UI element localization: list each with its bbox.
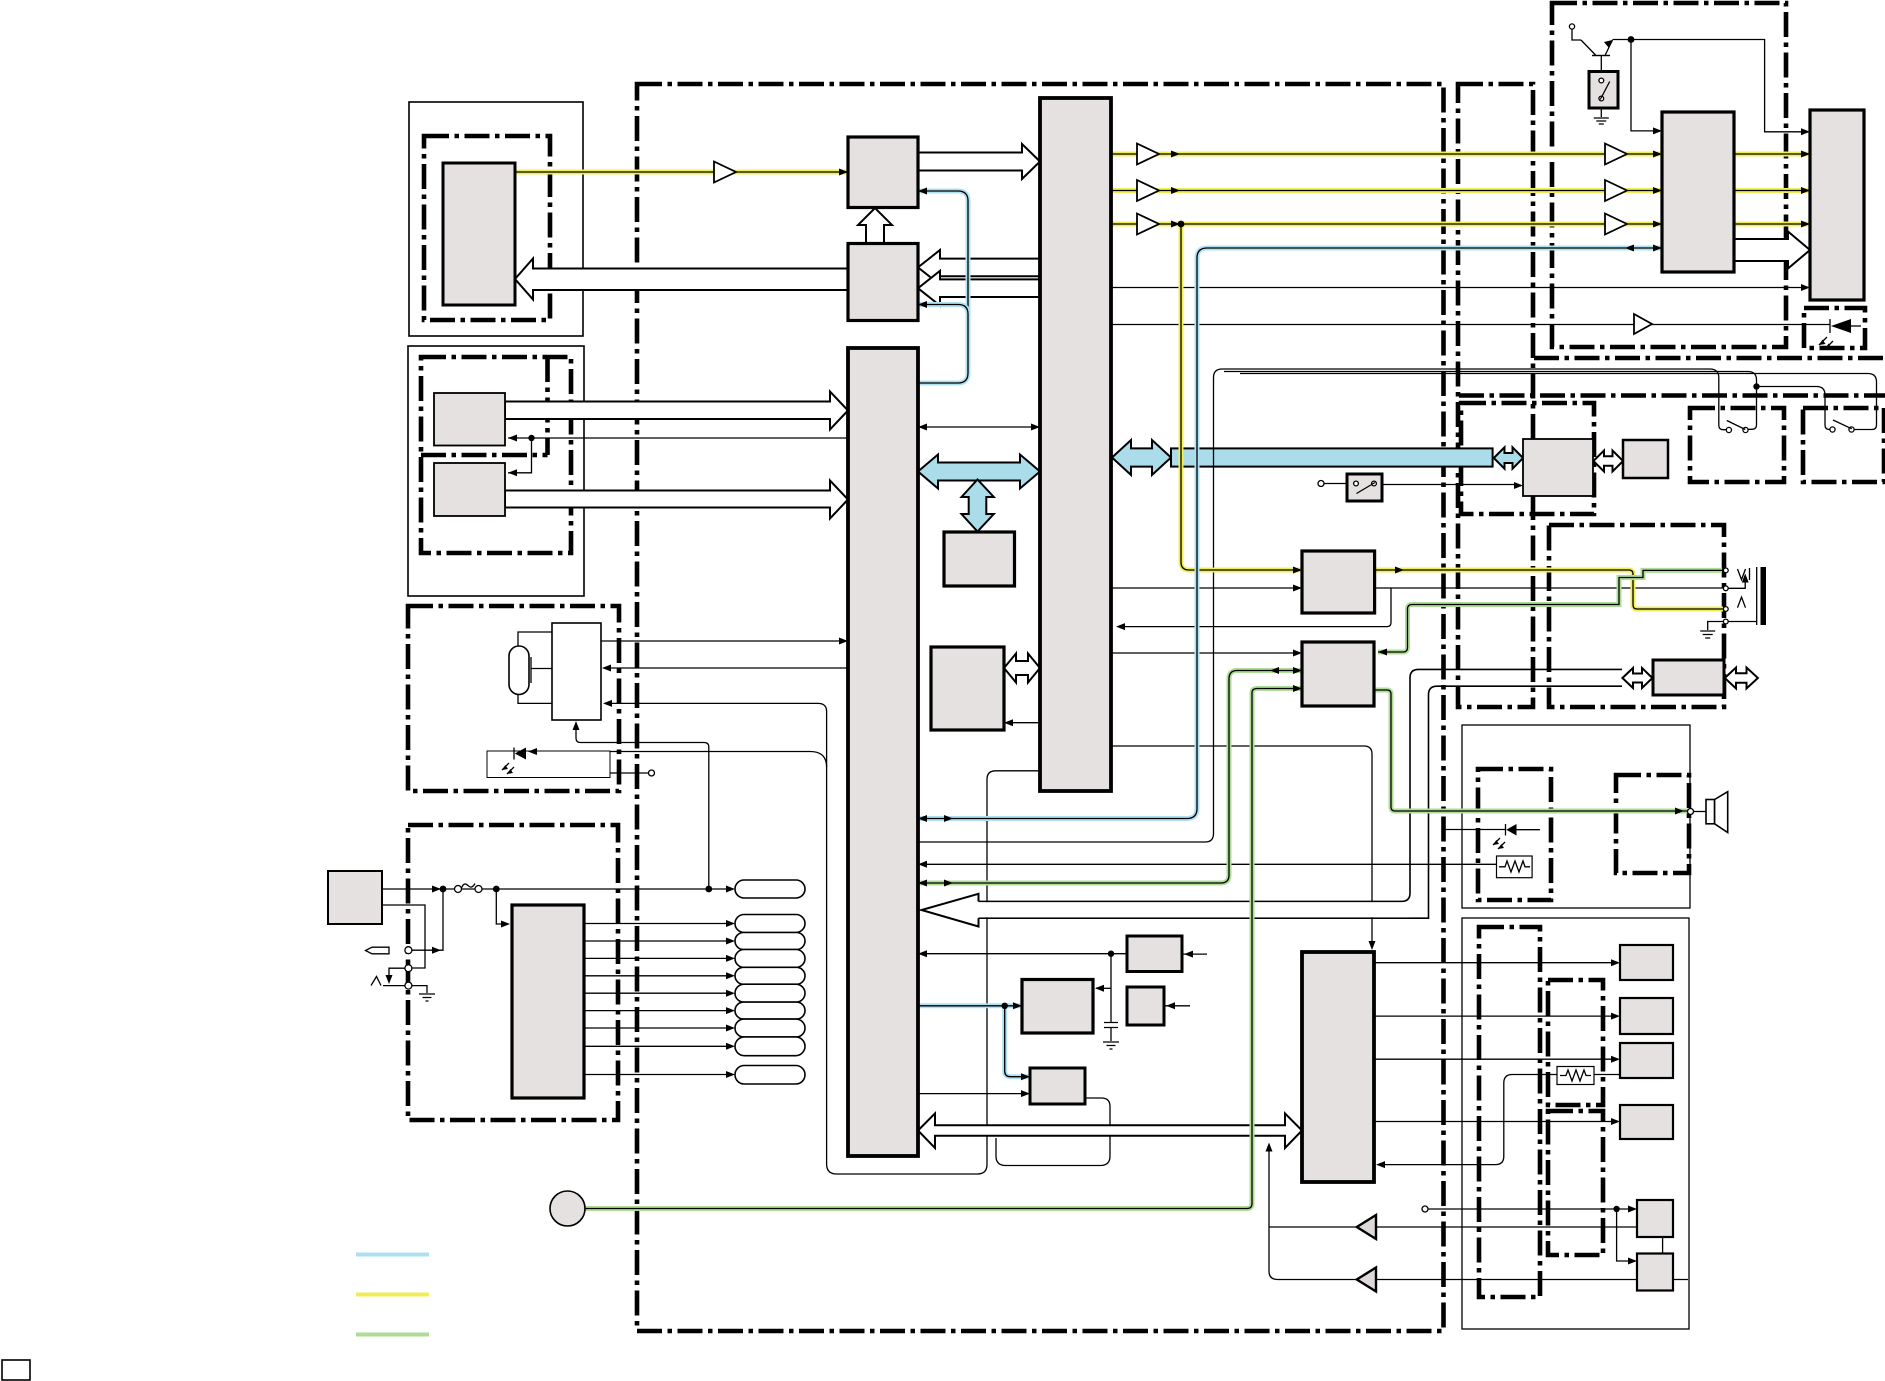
LED holder box mic <box>487 751 610 778</box>
narrow column dash-dot box <box>1458 84 1533 707</box>
arrowhead into SY top <box>1369 941 1376 950</box>
open arrow T1 to B2 upper <box>918 250 1040 285</box>
open arrow B2 up to B1 <box>858 208 892 243</box>
pill button 6 <box>735 984 805 1002</box>
arrowhead into C2 <box>1004 719 1013 726</box>
block LCD panel <box>1810 110 1864 300</box>
arrowhead cyan tleft right <box>944 815 953 822</box>
pill button 8 <box>735 1019 805 1037</box>
amp triangle RGB3 a <box>1137 214 1159 235</box>
wire green microphone circle to D2 <box>585 689 1302 1209</box>
wire yellow RGB line 2 driver to panel <box>1734 188 1810 193</box>
bottom-right tall dash-dot box <box>1479 927 1540 1297</box>
open arrow T1 to B2 lower <box>918 271 1040 306</box>
open arrow B1 to T1 <box>918 144 1040 179</box>
open arrow B2 to CCD A3 <box>515 259 848 300</box>
arrowhead T1 panel line <box>1801 284 1810 291</box>
block CCD imager A3 <box>443 163 515 305</box>
open arrow double C2 T1 <box>1004 654 1040 683</box>
node amp power junction <box>705 886 712 893</box>
node switch harness junction <box>1753 383 1759 389</box>
arrowhead pill 9 <box>726 1043 735 1050</box>
block EVF interface 1 <box>1523 439 1593 496</box>
wire R5 to R6 link <box>1662 1237 1664 1254</box>
switch symbol mode SW <box>1354 481 1377 493</box>
wire SY out 1 <box>1374 962 1616 964</box>
wire rail branch to LCD driver <box>1631 40 1658 131</box>
arrowhead green D2 right <box>1293 667 1302 674</box>
arrowhead pill 5 <box>726 972 735 979</box>
wire cyan timing branch to B2 <box>918 305 968 315</box>
arrowhead pill 6 <box>726 990 735 997</box>
arrowhead cyan into B2 <box>918 301 927 308</box>
wire keypad out 4 <box>584 975 731 977</box>
wire mic LED routed down channel <box>528 752 827 768</box>
arrowhead yellow after D1 <box>1395 567 1404 574</box>
open arrow double EVF blocks <box>1593 451 1623 472</box>
block camera DSP T_left <box>848 348 918 1156</box>
arrowhead pill 2 <box>726 920 735 927</box>
legend cyan line <box>356 1253 429 1257</box>
block regulator E3 <box>1030 1068 1085 1104</box>
wire audio data bus bottom <box>979 686 1623 918</box>
block main LSI T1 <box>1040 98 1111 791</box>
top-right LCD dash-dot box <box>1552 3 1786 347</box>
wire T_left to mic amp in <box>604 667 848 669</box>
wire yellow RGB line 3 T1 to LCD driver <box>1111 222 1662 227</box>
arrowhead yellow driver 3 <box>1653 221 1662 228</box>
wire cyan LCD feedback driver to T_left <box>918 248 1662 819</box>
block audio D2 <box>1302 642 1374 706</box>
wire keypad out 8 <box>584 1045 731 1047</box>
arrowhead bus riser up <box>1266 1143 1273 1152</box>
pill button 7 <box>735 1002 805 1019</box>
block R1 <box>1620 945 1673 980</box>
wire terminal to R5 R6 <box>1428 1209 1633 1261</box>
block R6 <box>1637 1254 1673 1291</box>
camera group 1 thin box <box>409 102 583 336</box>
terminal circle DC 1 <box>405 947 412 954</box>
microphone capsule bar and leads <box>518 632 552 703</box>
arrowhead into amp bottom <box>573 721 580 730</box>
arrowhead yellow mid 2 <box>1171 187 1180 194</box>
wire G2A/G2B control from T_left <box>508 438 848 473</box>
arrowhead pill 1 <box>726 886 735 893</box>
wire DC-in jack to node <box>412 889 443 950</box>
block regulator E4 <box>1127 987 1164 1025</box>
wire keypad out 6 <box>584 1010 731 1012</box>
resistor box speaker <box>1497 856 1533 878</box>
block battery <box>328 871 382 924</box>
bottom-right inner dash-dot box lower <box>1548 1111 1603 1255</box>
wire audio data bus top <box>979 669 1623 901</box>
arrowhead into amp 2 <box>603 700 612 707</box>
wire keypad out 5 <box>584 992 731 994</box>
arrowhead amp out into T_left <box>839 638 848 645</box>
wire B3 handshake T_left T1 <box>918 426 1040 428</box>
bottom-right inner dash-dot box upper <box>1548 980 1603 1105</box>
block memory C2 <box>931 647 1004 730</box>
arrowhead cyan into B1 <box>918 188 927 195</box>
node cyan E2 branch <box>1002 1003 1008 1009</box>
arrowhead switch line into EVF1 <box>1514 482 1523 489</box>
wire mic amp out to T_left <box>601 640 848 642</box>
wire terminal 3 right to ground <box>412 986 427 993</box>
arrowhead into T_left E1 line <box>918 950 927 957</box>
node battery junction 2 <box>493 886 500 893</box>
node yellow branch <box>1178 221 1185 228</box>
wire mic amp power from fuse node <box>576 723 709 889</box>
fuse symbol <box>455 884 483 893</box>
amp triangle RGB2 a <box>1137 180 1159 201</box>
arrowhead into R5 <box>1628 1206 1637 1213</box>
arrowhead yellow mid 1 <box>1171 151 1180 158</box>
legend yellow line <box>356 1293 429 1297</box>
wire yellow RGB line 3 driver to panel <box>1734 222 1810 227</box>
wire sensor resistor to SY <box>1380 1075 1620 1165</box>
arrowhead into E3 thin <box>1021 1090 1030 1097</box>
arrowhead yellow into B1 <box>839 169 848 176</box>
arrowhead cyan lcd right <box>1653 245 1662 252</box>
switch SW1 contacts <box>1726 421 1748 433</box>
bus cyan T_left T1 double arrow <box>918 455 1040 489</box>
arrowhead into LCD panel rail <box>1801 128 1810 135</box>
wire SY out 4 <box>1374 1121 1616 1123</box>
arrowhead green mic into D2 <box>1293 685 1302 692</box>
wire T_left to speaker resistor <box>920 863 1497 865</box>
wire amp2 to bus riser with arrow <box>1269 1147 1688 1280</box>
terminal circle DC 3 <box>405 982 412 989</box>
amp triangle SY in 1 <box>1357 1215 1376 1239</box>
arrowhead pill 8 <box>726 1025 735 1032</box>
block LCD driver <box>1662 112 1734 272</box>
block regulator E2 <box>1022 980 1093 1034</box>
wire yellow RGB line 1 driver to panel <box>1734 152 1810 157</box>
headphone dash-dot box <box>1549 525 1724 707</box>
wire E4 stub <box>1164 1005 1190 1007</box>
open arrow G2A to T_left <box>505 392 848 430</box>
open arrow double headphone block right <box>1725 668 1758 689</box>
EVF dash-dot box <box>1461 403 1594 514</box>
wire keypad out 2 <box>584 940 731 942</box>
amp triangle RGB2 b <box>1605 180 1627 201</box>
node transistor rail junction <box>1628 36 1635 43</box>
arrowhead into T_left speaker line <box>918 861 927 868</box>
switch dash-dot box 2 <box>1803 408 1884 482</box>
arrowhead green speaker <box>1675 808 1684 815</box>
wire battery sense <box>382 905 425 968</box>
arrowhead battery node <box>432 886 441 893</box>
arrowhead cyan into E3 <box>1021 1073 1030 1080</box>
arrowhead into SY sensor <box>1376 1161 1385 1168</box>
block CDS/AGC B1 <box>848 137 918 208</box>
wire green D2 to headphone ring contact crossover <box>1378 570 1722 652</box>
wire T1 to LCD panel status <box>1111 287 1808 289</box>
arrowhead yellow driver 2 <box>1653 187 1662 194</box>
block memory C1 <box>944 532 1015 586</box>
wire transistor collector rail <box>1572 29 1806 132</box>
block audio D1 <box>1302 551 1375 613</box>
open arrow LCD driver to panel <box>1734 232 1810 269</box>
amp triangle RGB1 b <box>1605 144 1627 165</box>
arrowhead G2B in <box>508 469 517 476</box>
block lens device G2A <box>434 393 505 446</box>
LED speaker symbol <box>1493 824 1540 849</box>
wire T1 to C2 <box>1007 722 1040 724</box>
switch SW2 contacts <box>1830 420 1854 432</box>
arrowhead pill 4 <box>726 955 735 962</box>
arrowhead yellow panel 2 <box>1801 187 1810 194</box>
arrowhead dcin node <box>432 947 441 954</box>
arrowhead yellow panel 3 <box>1801 221 1810 228</box>
arrowhead handshake right <box>1031 424 1040 431</box>
pill button 9 <box>735 1037 805 1056</box>
wire yellow RGB line 1 T1 to LCD driver <box>1111 152 1662 157</box>
block system micom SY <box>1302 952 1374 1182</box>
bus cyan vertical to C1 <box>962 480 994 532</box>
transistor Q1 <box>1581 40 1613 72</box>
block R3 <box>1620 1043 1673 1078</box>
arrowhead into LCD driver rail <box>1653 127 1662 134</box>
arrowhead ground drop <box>386 975 393 984</box>
wire yellow RGB line 2 T1 to LCD driver <box>1111 188 1662 193</box>
node R5 junction <box>1613 1206 1619 1212</box>
speaker inner dash-dot box right <box>1616 775 1689 873</box>
arrowhead pill 7 <box>726 1007 735 1014</box>
terminal circle DC 2 <box>405 965 412 972</box>
DC plug symbol <box>366 947 390 954</box>
wire E junction down to capacitor <box>1110 954 1112 1022</box>
amp triangle RGB3 b <box>1605 214 1627 235</box>
speaker inner dash-dot box left <box>1478 769 1551 900</box>
ground battery <box>419 994 435 1001</box>
arrowhead yellow panel 1 <box>1801 151 1810 158</box>
arrowhead SY out 2 <box>1611 1013 1620 1020</box>
wire keypad out 9 <box>584 1074 731 1076</box>
wire yellow branch down to audio D1 <box>1181 224 1302 570</box>
wire speaker LED feed <box>1443 829 1506 831</box>
wire bus U loop <box>996 1138 1110 1166</box>
wire green D2 to speaker <box>1374 690 1688 811</box>
microphone speaker circle <box>550 1191 585 1226</box>
wire T1 backlight control <box>1111 324 1830 326</box>
block mic amplifier <box>552 623 601 720</box>
wire keypad out 3 <box>584 957 731 959</box>
main board dash-dot box <box>637 84 1444 1331</box>
arrowhead yellow into D1 <box>1293 567 1302 574</box>
arrowhead handshake left <box>918 424 927 431</box>
arrowhead into E2 thin <box>1095 985 1104 992</box>
zigzag symbol <box>371 977 381 986</box>
pill button 4 <box>735 950 805 968</box>
wire E1 feed to T_left <box>920 953 1127 955</box>
block keypad controller <box>512 905 584 1098</box>
wire D1 to headphone center contact <box>1375 587 1723 589</box>
LED backlight dash-dot box <box>1804 308 1865 348</box>
resistor box sensor <box>1557 1067 1594 1085</box>
bus cyan small double arrow to EVF block <box>1494 447 1523 468</box>
arrowhead green D2 left <box>1270 667 1279 674</box>
terminal circle bottom right <box>1422 1206 1428 1212</box>
bottom-right thin box <box>1462 918 1689 1329</box>
arrowhead SY out 3 <box>1611 1056 1620 1063</box>
arrowhead yellow driver 1 <box>1653 151 1662 158</box>
wire fuse node down to keypad <box>496 889 508 924</box>
pill button 2 <box>735 915 805 933</box>
pill button 10 <box>735 1066 805 1085</box>
amp triangle RGB1 a <box>1137 144 1159 165</box>
block V driver B2 <box>848 244 918 321</box>
node E1 junction <box>1108 951 1114 957</box>
wire T1 to D2 <box>1111 652 1298 654</box>
wire terminal 2 branch <box>389 968 405 978</box>
block R5 <box>1637 1200 1673 1237</box>
arrowhead pill 3 <box>726 938 735 945</box>
wire cyan branch down to E3 block <box>1005 1006 1030 1077</box>
arrowhead E4 stub <box>1166 1002 1175 1009</box>
arrowhead into keypad <box>501 921 510 928</box>
block headphone driver hb <box>1653 660 1724 695</box>
arrowhead E1 stub <box>1184 951 1193 958</box>
arrowhead green tleft left <box>918 880 927 887</box>
block lens device G2B <box>434 463 505 516</box>
wire switch harness C <box>1240 374 1877 430</box>
arrowhead green tleft right <box>944 880 953 887</box>
arrowhead SY out 4 <box>1611 1118 1620 1125</box>
LED backlight symbol <box>1819 319 1861 349</box>
camera group 2 thin box <box>408 346 584 596</box>
wire keypad out 7 <box>584 1027 731 1029</box>
camera block dash-dot box 1 <box>424 136 550 320</box>
open arrow G2B to T_left <box>505 481 848 519</box>
wire switch harness A <box>918 369 1726 842</box>
wire E1 stub <box>1182 953 1207 955</box>
wire T1 to D1 <box>1111 587 1299 589</box>
wire T1 to SY <box>1111 746 1372 946</box>
terminal circle transistor <box>1569 24 1574 29</box>
camera box 2 divider vertical <box>545 357 550 455</box>
battery dash-dot box <box>408 825 618 1120</box>
arrowhead into D2 thin <box>1293 650 1302 657</box>
arrowhead into amp 1 <box>602 665 611 672</box>
wire harness junction to switch2 left <box>1757 387 1831 430</box>
camera box 2 divider horizontal <box>421 453 548 458</box>
arrowhead into mic LED <box>528 748 537 755</box>
amp triangle CCD line <box>714 162 736 183</box>
wire switch harness B <box>1224 372 1757 430</box>
dash-dot cable line y358 <box>1534 356 1885 361</box>
LED mic symbol <box>502 748 526 775</box>
pill button 5 <box>735 967 805 984</box>
arrowhead yellow mid 3 <box>1171 221 1180 228</box>
legend green line <box>356 1333 429 1337</box>
block EVF interface 2 <box>1623 440 1668 478</box>
wire R5 to bus riser <box>1269 1226 1637 1228</box>
microphone dash-dot box <box>408 606 619 791</box>
open arrow double headphone block left <box>1622 668 1652 688</box>
bus cyan T1 to bar and long bar <box>1112 440 1171 475</box>
block regulator E1 <box>1127 936 1182 972</box>
wire yellow D1 to headphone tip contact <box>1374 570 1723 609</box>
wire keypad out 1 <box>584 923 731 925</box>
open arrow audio bus head into T_left <box>922 894 1410 927</box>
wire cyan timing gen T_left to B1 <box>918 191 968 383</box>
speaker symbol <box>1693 792 1728 833</box>
wire branch to E2 <box>1096 987 1111 989</box>
arrowhead cyan lcd left <box>1625 245 1634 252</box>
terminal circle switch <box>1318 481 1324 487</box>
wire battery unreg main line <box>382 888 731 890</box>
camera block dash-dot box 2 <box>421 357 571 553</box>
open arrow big double T_left SY <box>918 1113 1302 1148</box>
block mode switch center <box>1347 474 1382 501</box>
wire power switch line <box>1324 484 1518 485</box>
arrowhead G2A in <box>508 435 517 442</box>
wire cyan T_left to E2 block <box>918 1003 1022 1008</box>
wire T_left to E3 <box>918 1093 1028 1095</box>
block R4 <box>1620 1105 1673 1139</box>
dash-dot cable line y395 <box>1459 393 1885 398</box>
switch dash-dot box 1 <box>1690 408 1784 482</box>
wire SY out 2 <box>1374 1015 1616 1017</box>
wire E3 to bus loop <box>1085 1098 1110 1138</box>
pill button 3 <box>735 933 805 950</box>
arrowhead pill 10 <box>726 1071 735 1078</box>
arrowhead green phones at D2 <box>1378 649 1387 656</box>
block R2 <box>1620 998 1673 1034</box>
wire mic LED to terminal circle <box>610 772 648 774</box>
arrowhead into D1 thin <box>1293 585 1302 592</box>
capacitor plates <box>1104 1023 1118 1028</box>
arrowhead SY out 1 <box>1611 959 1620 966</box>
wire green bidirectional T_left to D2 <box>918 671 1302 884</box>
microphone capsule <box>509 646 529 695</box>
node battery junction 1 <box>440 886 447 893</box>
wire terminal 3 left to zigzag <box>383 985 405 987</box>
page corner white box <box>2 1360 30 1380</box>
wire SY out 3 <box>1374 1058 1616 1060</box>
wire yellow CCD video A3 to B1 <box>515 170 848 175</box>
capacitor lead and ground <box>1103 1028 1119 1050</box>
wire mic amp in 2 routed from bottom channel <box>605 703 1040 1174</box>
switch SWB contacts <box>1594 78 1610 124</box>
node G2 junction <box>528 435 534 441</box>
pill button 1 <box>735 880 805 898</box>
wire branch back to T1 <box>1118 588 1391 627</box>
headphone jack assembly <box>1700 567 1766 638</box>
arrowhead cyan into E2 <box>1013 1002 1022 1009</box>
block power switch top right <box>1589 72 1618 109</box>
arrowhead into T1 from D1 loop <box>1116 623 1125 630</box>
terminal circle speaker <box>1688 809 1694 815</box>
speaker thin box <box>1462 725 1690 908</box>
amp triangle backlight <box>1634 314 1652 334</box>
terminal circle mic box <box>649 770 655 776</box>
arrowhead cyan tleft left <box>918 815 927 822</box>
arrowhead into R6 <box>1628 1258 1637 1265</box>
amp triangle SY in 2 <box>1357 1268 1376 1292</box>
